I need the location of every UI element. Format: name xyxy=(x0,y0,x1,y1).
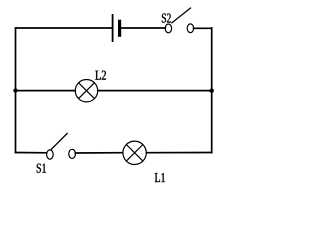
switch S1 xyxy=(47,133,76,159)
label L1 xyxy=(155,173,165,182)
wire left vertical xyxy=(15,28,17,153)
wire S2 to top-right corner xyxy=(194,27,212,29)
wire L1 to bottom-right corner xyxy=(147,152,212,154)
wire S1 to lamp L1 xyxy=(75,152,122,154)
node right junction xyxy=(210,89,214,93)
wire bottom-left to S1 xyxy=(16,152,47,154)
wire battery to switch S2 xyxy=(121,27,166,29)
wire middle right segment xyxy=(98,90,212,92)
wire top-left segment xyxy=(16,27,112,29)
lamp L2 xyxy=(75,80,97,102)
wire right vertical xyxy=(211,28,213,153)
wire middle left segment xyxy=(16,90,76,92)
node left junction xyxy=(13,88,17,92)
label S2 xyxy=(162,14,171,23)
battery cell xyxy=(113,14,120,42)
label L2 xyxy=(95,71,106,80)
label S1 xyxy=(37,164,46,173)
lamp L1 xyxy=(123,141,146,164)
switch S2 xyxy=(165,8,193,33)
